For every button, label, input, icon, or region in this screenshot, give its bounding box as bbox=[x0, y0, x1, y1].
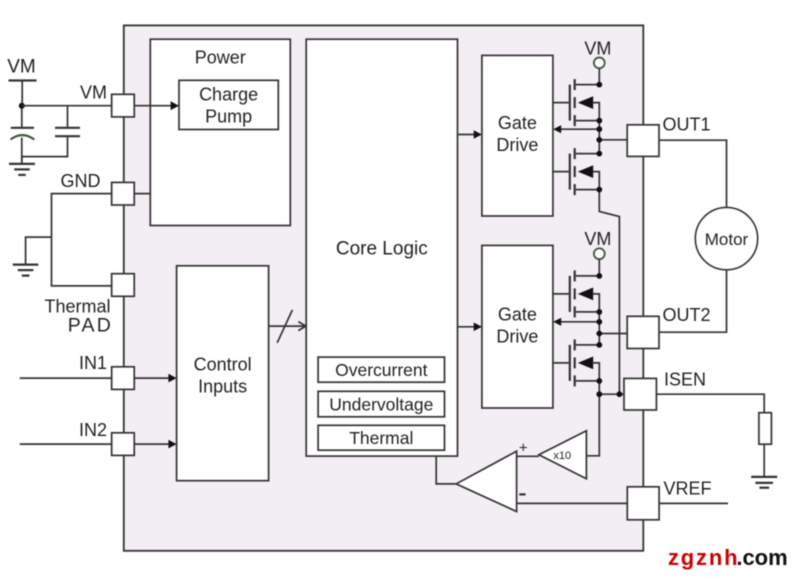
wire Q4 source down to ISEN rail bbox=[598, 381, 600, 394]
arrow Core Logic to Gate Drive 2 bbox=[458, 326, 475, 328]
svg-text:Drive: Drive bbox=[496, 327, 538, 347]
pin OUT2 bbox=[627, 316, 659, 348]
transistor Q1 (high-side, OUT1) bbox=[553, 79, 599, 126]
pin VM bbox=[112, 94, 135, 117]
pin Thermal PAD bbox=[112, 274, 135, 297]
wire GND pin loop to Thermal PAD bbox=[52, 194, 112, 286]
op-amp A1 (x10 current sense amp) bbox=[539, 431, 587, 479]
wire IN2 external bbox=[20, 443, 112, 445]
ground (sense resistor) bbox=[751, 477, 777, 488]
Power block bbox=[150, 39, 290, 225]
VM supply symbol (external) bbox=[9, 81, 37, 128]
wire VREF to comparator minus input bbox=[517, 502, 628, 504]
svg-text:GND: GND bbox=[61, 171, 101, 191]
pin IN2 bbox=[112, 433, 135, 456]
arrow IN1 to Control Inputs bbox=[134, 377, 168, 379]
svg-text:Core Logic: Core Logic bbox=[336, 239, 428, 260]
svg-text:Gate: Gate bbox=[498, 113, 537, 133]
wire GND stub to ground bbox=[26, 237, 52, 264]
svg-text:VM: VM bbox=[7, 57, 36, 78]
svg-text:ISEN: ISEN bbox=[664, 369, 706, 389]
bus slash bbox=[277, 310, 292, 343]
Gate Drive 2 block bbox=[482, 245, 553, 408]
svg-text:OUT2: OUT2 bbox=[663, 305, 711, 325]
svg-text:Thermal: Thermal bbox=[44, 296, 110, 316]
svg-text:VREF: VREF bbox=[664, 479, 712, 499]
wire OUT1 to motor bbox=[659, 140, 727, 207]
svg-text:VM: VM bbox=[584, 39, 611, 59]
wire comparator output to Core Logic bbox=[436, 456, 456, 484]
pin ISEN bbox=[624, 378, 656, 410]
junction dots half-bridge 2 bbox=[596, 273, 622, 397]
wire resistor to ground bbox=[763, 444, 765, 476]
pin GND bbox=[112, 182, 135, 205]
wire motor to OUT2 bbox=[659, 270, 727, 332]
Charge Pump block bbox=[179, 80, 278, 129]
ground (input caps) bbox=[9, 164, 35, 175]
Overcurrent block bbox=[318, 357, 444, 382]
motor M1 bbox=[695, 207, 757, 269]
wire x10 output to comparator plus input bbox=[517, 455, 539, 457]
svg-text:Pump: Pump bbox=[205, 107, 252, 127]
svg-text:+: + bbox=[519, 439, 528, 456]
svg-text:IN2: IN2 bbox=[79, 420, 107, 440]
transistor Q3 (high-side, OUT2) bbox=[553, 270, 599, 317]
svg-text:Charge: Charge bbox=[199, 85, 258, 105]
ground (GND pin) bbox=[13, 265, 39, 276]
watermark bbox=[668, 545, 788, 571]
capacitor C1 (bulk electrolytic) bbox=[11, 128, 35, 164]
svg-text:Undervoltage: Undervoltage bbox=[329, 394, 433, 414]
svg-text:Drive: Drive bbox=[496, 135, 538, 155]
resistor R1 (sense) bbox=[759, 413, 772, 445]
svg-text:Gate: Gate bbox=[498, 305, 537, 325]
wire half-bridge 1 center column bbox=[598, 121, 600, 154]
op-amp U2 (current limit comparator) bbox=[456, 451, 516, 511]
wire VREF external bbox=[659, 502, 728, 504]
pin VREF bbox=[627, 487, 659, 520]
svg-text:Overcurrent: Overcurrent bbox=[335, 360, 428, 380]
svg-text:Thermal: Thermal bbox=[349, 428, 413, 448]
svg-text:PAD: PAD bbox=[68, 315, 113, 337]
Gate Drive 1 block bbox=[482, 55, 553, 216]
feedback arrow to Gate Drive 2 bbox=[561, 321, 600, 323]
pin IN1 bbox=[112, 367, 135, 390]
arrow Core Logic to Gate Drive 1 bbox=[458, 134, 475, 136]
svg-text:x10: x10 bbox=[553, 450, 571, 462]
svg-text:OUT1: OUT1 bbox=[663, 115, 711, 135]
wire IN1 external bbox=[20, 377, 112, 379]
wire ISEN rail to ISEN pin bbox=[599, 393, 624, 395]
svg-text:IN1: IN1 bbox=[79, 353, 107, 373]
wire VM pin to Charge Pump bbox=[134, 105, 170, 107]
wire Q2 source to ISEN rail bbox=[599, 190, 619, 395]
svg-text:VM: VM bbox=[80, 82, 107, 102]
wire GND pin to Power block bbox=[134, 193, 150, 195]
feedback arrow to Gate Drive 1 bbox=[561, 128, 600, 130]
wire ISEN to sense resistor bbox=[656, 394, 764, 413]
pin OUT1 bbox=[627, 125, 659, 157]
svg-text:Power: Power bbox=[195, 48, 246, 68]
Control Inputs block bbox=[177, 266, 269, 481]
arrow IN2 to Control Inputs bbox=[134, 443, 168, 445]
wire VM node to VM pin bbox=[22, 105, 112, 107]
svg-text:Control: Control bbox=[194, 355, 252, 375]
Core Logic block bbox=[306, 39, 457, 456]
transistor Q4 (low-side, OUT2) bbox=[553, 339, 599, 386]
svg-text:Inputs: Inputs bbox=[198, 377, 247, 397]
Thermal block bbox=[318, 425, 444, 450]
wire to OUT2 pin bbox=[599, 333, 627, 335]
node A (VM bulk node) bbox=[19, 103, 25, 109]
capacitor C2 (bypass) bbox=[22, 106, 80, 164]
bus wire Control Inputs to Core Logic bbox=[269, 325, 306, 327]
Undervoltage block bbox=[318, 391, 444, 417]
junction dots half-bridge 1 bbox=[596, 82, 602, 193]
wire half-bridge 2 center column bbox=[598, 312, 600, 345]
wire to OUT1 pin bbox=[599, 139, 627, 141]
transistor Q2 (low-side, OUT1) bbox=[553, 148, 599, 195]
svg-text:VM: VM bbox=[584, 229, 611, 249]
svg-text:Motor: Motor bbox=[705, 230, 749, 249]
chip body U1 bbox=[124, 25, 644, 550]
wire ISEN rail down to x10 amp bbox=[587, 394, 599, 456]
